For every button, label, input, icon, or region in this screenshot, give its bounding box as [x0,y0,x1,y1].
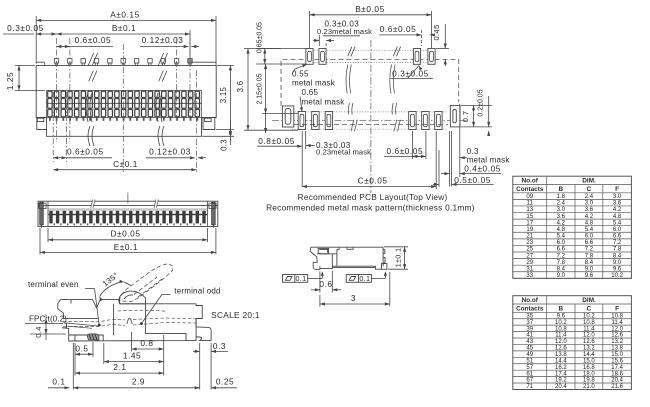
view 2: connector front view [38,201,218,226]
svg-text:0.4: 0.4 [34,326,43,337]
dimension 0.2±0.05 right [477,89,490,136]
svg-text:29: 29 [526,260,533,266]
dimension B±0.05 pcb [310,4,432,48]
svg-text:13.2: 13.2 [611,339,623,345]
FPC hatched end [87,334,99,340]
svg-text:2.4: 2.4 [557,201,566,207]
svg-text:0.6±0.05: 0.6±0.05 [75,35,112,45]
svg-text:7.8: 7.8 [613,247,622,253]
svg-text:17.4: 17.4 [611,365,623,371]
svg-text:DIM.: DIM. [582,178,596,185]
svg-text:41: 41 [526,333,533,339]
svg-text:0.1: 0.1 [296,274,307,283]
svg-text:0.3: 0.3 [220,139,229,151]
connector body outline [36,65,216,136]
svg-text:7.8: 7.8 [585,253,594,259]
svg-text:9.0: 9.0 [613,260,622,266]
svg-text:Recommended metal mask pattern: Recommended metal mask pattern(thickness… [266,203,475,213]
flatness frame 2 leader [371,271,387,278]
dimension 0.12±0.03 top [140,35,199,48]
svg-text:20.4: 20.4 [555,384,567,390]
label terminal odd [140,287,221,325]
svg-text:43: 43 [526,339,533,345]
svg-text:6.6: 6.6 [557,247,566,253]
dimension 0.5 section [75,342,93,357]
dimension 0.6±0.05 bottom [53,147,112,160]
odd terminal contact bump [127,319,132,324]
PCB bottom row pads [298,112,442,130]
svg-text:0.1: 0.1 [52,377,65,387]
svg-text:6.0: 6.0 [557,240,566,246]
view 5: side view [310,247,387,269]
svg-text:0.3±0.05: 0.3±0.05 [392,69,429,79]
svg-text:8.4: 8.4 [557,266,566,272]
svg-text:5.4: 5.4 [557,234,566,240]
svg-text:0.6: 0.6 [319,279,332,289]
svg-text:15.0: 15.0 [611,352,623,358]
svg-text:31: 31 [526,266,533,272]
svg-text:FPC:t(0.2): FPC:t(0.2) [29,315,67,324]
dimension 1.25 [5,65,45,90]
svg-text:19.8: 19.8 [583,378,595,384]
dimension 0.4 section [30,315,66,341]
svg-text:21: 21 [526,234,533,240]
dimension 3 side view [320,272,390,307]
svg-text:51: 51 [526,358,533,364]
svg-text:0.4±0.05: 0.4±0.05 [464,164,501,174]
dimension A±0.15 [36,9,216,63]
svg-text:9.0: 9.0 [557,273,566,279]
front view contact teeth band [48,208,207,211]
svg-text:0.5: 0.5 [75,343,88,353]
svg-text:9.6: 9.6 [613,266,622,272]
svg-text:12.0: 12.0 [583,333,595,339]
dimension 2.9 and 0.1 section [48,343,200,390]
svg-text:13.8: 13.8 [555,352,567,358]
svg-text:15.0: 15.0 [583,358,595,364]
dimension 3.6 [236,49,306,131]
front view side nails [40,202,216,225]
svg-text:0.45: 0.45 [432,25,441,41]
dimension 1±0.1 side view [384,247,408,269]
svg-text:0.12±0.03: 0.12±0.03 [149,147,191,157]
svg-text:27: 27 [526,253,533,259]
svg-text:67: 67 [526,378,533,384]
dimension 0.3±0.05 pcb mid [391,66,434,79]
dimension C±0.1 [53,159,196,171]
flatness frame 2 [346,275,371,283]
dimension 2.15±0.05 left [256,64,298,133]
svg-text:3.0: 3.0 [613,194,622,200]
svg-text:19.2: 19.2 [555,378,567,384]
svg-text:0.23metal mask: 0.23metal mask [317,27,372,36]
dimension 2.1 section [75,357,164,376]
PCB dashed outline bottom edge [294,124,448,126]
label 0.55 metal mask [292,64,336,87]
svg-text:8.4: 8.4 [585,260,594,266]
svg-text:D±0.05: D±0.05 [111,228,141,238]
svg-text:17.4: 17.4 [555,371,567,377]
svg-text:terminal odd: terminal odd [174,287,220,296]
svg-text:A±0.15: A±0.15 [110,9,140,19]
svg-text:20.4: 20.4 [611,378,623,384]
svg-text:metal mask: metal mask [302,97,346,106]
svg-text:terminal even: terminal even [28,280,79,289]
dimension 0.3 section right [193,341,228,355]
svg-text:45: 45 [526,346,533,352]
flatness frame 1 leader [308,271,324,278]
label 0.65 metal mask [300,88,345,112]
svg-text:09: 09 [526,194,533,200]
svg-text:11.4: 11.4 [555,333,567,339]
svg-text:6.0: 6.0 [585,234,594,240]
svg-text:6.6: 6.6 [585,240,594,246]
svg-text:9.0: 9.0 [585,266,594,272]
svg-text:3.0: 3.0 [585,201,594,207]
svg-text:14.4: 14.4 [583,352,595,358]
svg-text:10.8: 10.8 [583,320,595,326]
dimension E±0.1 [40,228,216,255]
svg-text:7.2: 7.2 [585,247,594,253]
svg-text:0.6±0.05: 0.6±0.05 [380,24,417,34]
dimension 0.6±0.05 pcb top [379,24,435,46]
svg-text:0.8±0.05: 0.8±0.05 [258,136,295,146]
svg-text:13: 13 [526,207,533,213]
svg-text:B: B [559,305,564,312]
PCB break marks [348,47,355,57]
cross-section actuator lever dashed [119,264,173,302]
svg-text:10.8: 10.8 [611,313,623,319]
svg-text:2.1: 2.1 [113,362,126,372]
svg-text:B±0.05: B±0.05 [355,4,385,14]
dimension 0.8±0.05 pcb [257,136,302,187]
svg-text:12.6: 12.6 [611,333,623,339]
svg-text:4.8: 4.8 [585,220,594,226]
svg-text:12.6: 12.6 [555,346,567,352]
cross-section terminal dashed lines [63,310,196,326]
svg-text:4.8: 4.8 [613,214,622,220]
svg-text:1.45: 1.45 [123,351,141,361]
svg-text:10.2: 10.2 [583,313,595,319]
dimension B±0.1 and 0.3±0.05 [3,23,190,59]
svg-text:4.2: 4.2 [557,220,566,226]
svg-text:No.of: No.of [522,297,539,304]
svg-text:15.6: 15.6 [611,358,623,364]
svg-text:11.4: 11.4 [583,326,595,332]
svg-text:12.0: 12.0 [555,339,567,345]
svg-text:Contacts: Contacts [516,305,544,312]
svg-text:1.25: 1.25 [5,72,15,90]
svg-text:9.6: 9.6 [557,313,566,319]
svg-text:B: B [559,186,564,193]
svg-text:21.0: 21.0 [583,384,595,390]
dimension 3.15 [203,65,235,136]
svg-text:9.6: 9.6 [585,273,594,279]
svg-text:11: 11 [527,201,534,207]
table 1 contacts 09-33 [513,176,632,278]
dimension 0.12±0.03 bottom [146,147,206,160]
break marks view1 [88,53,97,65]
table 2 contacts 35-71 [513,296,632,390]
svg-text:4.2: 4.2 [585,214,594,220]
svg-text:0.65±0.05: 0.65±0.05 [256,22,263,53]
svg-text:8.4: 8.4 [613,253,622,259]
svg-text:0.8: 0.8 [140,338,153,348]
front view break gaps [92,200,157,208]
svg-text:0.6±0.05: 0.6±0.05 [67,147,104,157]
svg-text:16.2: 16.2 [555,365,567,371]
even terminal line [66,323,98,328]
svg-text:57: 57 [526,365,533,371]
svg-text:25: 25 [526,247,533,253]
svg-text:18.0: 18.0 [583,371,595,377]
svg-text:2.15±0.05: 2.15±0.05 [256,73,263,104]
svg-text:F: F [615,305,619,312]
svg-text:2.9: 2.9 [132,377,145,387]
svg-text:71: 71 [526,384,533,390]
svg-text:metal mask: metal mask [292,79,336,88]
dimension C±0.05 [302,131,436,189]
dimension 0.45 [432,24,449,66]
center lines view1 [53,38,196,172]
PCB left anchor pad [282,106,293,127]
svg-text:0.5±0.05: 0.5±0.05 [454,175,491,185]
dimension 1.45 section [104,343,164,364]
svg-text:C: C [587,305,592,312]
svg-text:E±0.1: E±0.1 [114,242,138,252]
PCB top row pads [306,49,435,65]
dimension 0.3 right side [216,121,234,151]
svg-text:17: 17 [526,220,533,226]
svg-text:F: F [615,186,619,193]
lever cam solid part [119,291,145,304]
svg-text:49: 49 [526,352,533,358]
label FPC:t(0.2) [25,315,67,324]
svg-text:0.65: 0.65 [302,88,319,97]
svg-text:0.2±0.05: 0.2±0.05 [477,89,484,116]
svg-text:Recommended PCB Layout(Top Vie: Recommended PCB Layout(Top View) [298,192,448,202]
PCB horizontal center line [272,120,468,122]
svg-text:15: 15 [526,214,533,220]
svg-text:10.8: 10.8 [555,326,567,332]
dimension 0.65±0.05 left [256,22,306,64]
svg-text:3.6: 3.6 [557,214,566,220]
svg-text:0.3: 0.3 [213,341,226,351]
PCB dotted mask lines top row [292,50,448,129]
svg-text:7.2: 7.2 [613,240,622,246]
label 0.3 metal mask right [460,147,511,164]
svg-text:C±0.1: C±0.1 [113,159,138,169]
cross-section body outline [58,300,211,341]
dimension 0.25 section right [211,355,237,390]
svg-text:2.4: 2.4 [585,194,594,200]
svg-text:3.0: 3.0 [557,207,566,213]
svg-text:No.of: No.of [522,178,539,185]
dimension 0.3±0.03 0.23metal mask bottom [302,131,371,157]
svg-text:13.2: 13.2 [583,346,595,352]
svg-text:DIM.: DIM. [582,297,596,304]
svg-text:37: 37 [526,320,533,326]
svg-text:0.55: 0.55 [292,70,309,79]
svg-text:10.2: 10.2 [555,320,567,326]
dimension 0.6±0.05 pcb bottom [384,131,426,159]
svg-text:7.2: 7.2 [557,253,566,259]
svg-text:C: C [587,186,592,193]
svg-text:0.7: 0.7 [461,111,470,122]
svg-text:B±0.1: B±0.1 [112,23,136,33]
dimension 0.8 section [132,332,164,376]
svg-text:0.23metal mask: 0.23metal mask [316,148,371,157]
svg-text:14.4: 14.4 [555,358,567,364]
svg-text:13.8: 13.8 [611,346,623,352]
svg-text:16.8: 16.8 [583,365,595,371]
svg-text:3.15: 3.15 [219,86,228,103]
svg-text:4.8: 4.8 [557,227,566,233]
svg-text:0.1: 0.1 [359,274,370,283]
svg-text:C±0.05: C±0.05 [358,176,388,186]
svg-text:35: 35 [526,313,533,319]
svg-text:12.0: 12.0 [611,326,623,332]
svg-text:10.2: 10.2 [611,273,623,279]
label terminal even [28,280,101,326]
svg-text:33: 33 [526,273,533,279]
top pin tabs [54,59,192,66]
dimension 0.7 right [461,105,492,127]
dimension 0.5±0.05 [433,150,494,187]
svg-text:0.25: 0.25 [216,377,234,387]
svg-text:3.6: 3.6 [585,207,594,213]
svg-text:7.8: 7.8 [557,260,566,266]
svg-text:12.6: 12.6 [583,339,595,345]
raised side edges view1 [36,62,216,65]
svg-text:0.6±0.05: 0.6±0.05 [386,146,423,156]
dimension 0.6±0.05 top [57,35,114,48]
svg-text:1.8: 1.8 [557,194,566,200]
PCB dashed outline [281,59,459,106]
contact band view1 [47,90,202,117]
svg-text:3: 3 [351,293,356,303]
front view center line [127,193,129,204]
dimension 0.3±0.03 0.23metal mask top [313,20,372,47]
svg-text:11.4: 11.4 [611,320,623,326]
svg-text:0.12±0.03: 0.12±0.03 [142,35,184,45]
svg-text:5.4: 5.4 [585,227,594,233]
dimension D±0.05 [48,228,207,242]
flatness frame 1 [283,275,308,283]
svg-text:6.6: 6.6 [613,234,622,240]
svg-text:21.6: 21.6 [611,384,623,390]
svg-text:61: 61 [526,371,533,377]
svg-text:18.6: 18.6 [611,371,623,377]
svg-text:3.6: 3.6 [613,201,622,207]
svg-text:1±0.1: 1±0.1 [393,248,402,268]
label 135 degrees with arc [100,271,132,302]
PCB right anchor pad [450,105,460,127]
PCB vertical center line [370,40,372,193]
svg-text:0.3±0.05: 0.3±0.05 [7,23,44,33]
svg-text:4.2: 4.2 [613,207,622,213]
svg-text:Contacts: Contacts [516,186,544,193]
svg-text:39: 39 [526,326,533,332]
svg-text:3.6: 3.6 [236,81,245,93]
dimension 0.6 side view [311,271,341,293]
svg-text:5.4: 5.4 [613,220,622,226]
svg-text:SCALE 20:1: SCALE 20:1 [211,310,260,320]
svg-text:6.0: 6.0 [613,227,622,233]
svg-text:19: 19 [526,227,533,233]
svg-text:23: 23 [526,240,533,246]
dimension 0.4±0.05 [441,104,501,187]
